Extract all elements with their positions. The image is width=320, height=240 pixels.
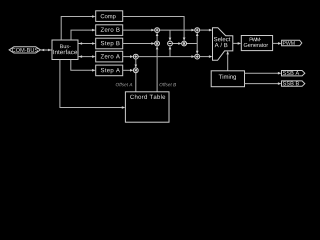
wire Bus-Interface to Zero B — [71, 29, 96, 40]
wire Timing to SSB B connector — [245, 82, 282, 85]
wire adder C7 to Select A/B lower input — [200, 55, 213, 58]
mux Select A/B — [213, 28, 233, 61]
wire Bus-Interface to Step B (bidirectional) — [78, 42, 96, 45]
wire Bus-Interface to Step A — [71, 60, 96, 72]
wire Zero B output to adder C1 — [123, 29, 155, 32]
block Chord Table — [125, 92, 169, 122]
block PWM-Generator — [241, 36, 272, 51]
multiplier C5 — [182, 41, 187, 46]
wire adder C1 to adder C2 — [160, 29, 196, 32]
adder C2 — [195, 28, 200, 33]
block Step A — [96, 65, 123, 76]
wire Timing to Select A/B select input — [226, 51, 229, 71]
multiplier C3 — [155, 41, 160, 46]
multiplier C8 — [133, 68, 138, 73]
wire adder C2 to Select A/B upper input — [200, 29, 213, 32]
wire Chord Table offset up to multiplier C3 (crosses Zero A line) — [156, 46, 159, 92]
wire Zero A line branch up to subtractor C4 — [169, 46, 172, 57]
adder C1 — [155, 28, 160, 33]
block Zero A — [96, 51, 123, 62]
wire multiplier C8 down to Chord Table (Offset A) — [135, 73, 137, 92]
label Offset A — [116, 83, 133, 86]
wire Bus-Interface to Chord Table — [60, 60, 126, 109]
wire Bus-Interface to Comp — [61, 15, 95, 40]
wire Bus-Interface to Zero A (bidirectional) — [78, 55, 96, 58]
wire multiplier C5 output splitting to adders C2 and C7 — [187, 33, 199, 55]
subtractor C4 — [168, 41, 173, 46]
wire Step B output to multiplier C3 — [123, 42, 155, 45]
wire PWM-Generator to PWM connector — [273, 42, 282, 45]
wire COM-BUS to Bus-Interface (bidirectional) — [41, 49, 52, 52]
connector SSB A — [282, 71, 305, 76]
wire Comp output down to multiplier C5 — [123, 17, 186, 42]
wire Zero A output to adder C6 — [123, 55, 134, 58]
block Zero B — [96, 25, 123, 36]
connector SSB B — [282, 81, 305, 86]
wire Step A output to multiplier C8 — [123, 69, 134, 72]
wire multiplier C3 up to adder C1 — [156, 33, 159, 42]
connector COM-BUS — [9, 47, 40, 53]
wire adder C6 to adder C7 — [138, 55, 195, 58]
wire subtractor C4 to multiplier C5 — [172, 42, 181, 45]
block Step B — [96, 38, 123, 49]
adder C7 — [195, 54, 200, 59]
connector PWM — [282, 40, 302, 46]
wire Timing to SSB A connector — [245, 72, 282, 75]
wire Select A/B output to PWM-Generator — [233, 42, 242, 45]
adder C6 — [133, 54, 138, 59]
wire branch junction down to subtractor C4 — [169, 30, 172, 41]
label Offset B — [159, 83, 176, 86]
wire adder C6 down to multiplier C8 — [135, 59, 138, 68]
block Timing — [211, 71, 244, 87]
block Bus-Interface — [52, 40, 78, 60]
block Comp — [96, 11, 123, 22]
